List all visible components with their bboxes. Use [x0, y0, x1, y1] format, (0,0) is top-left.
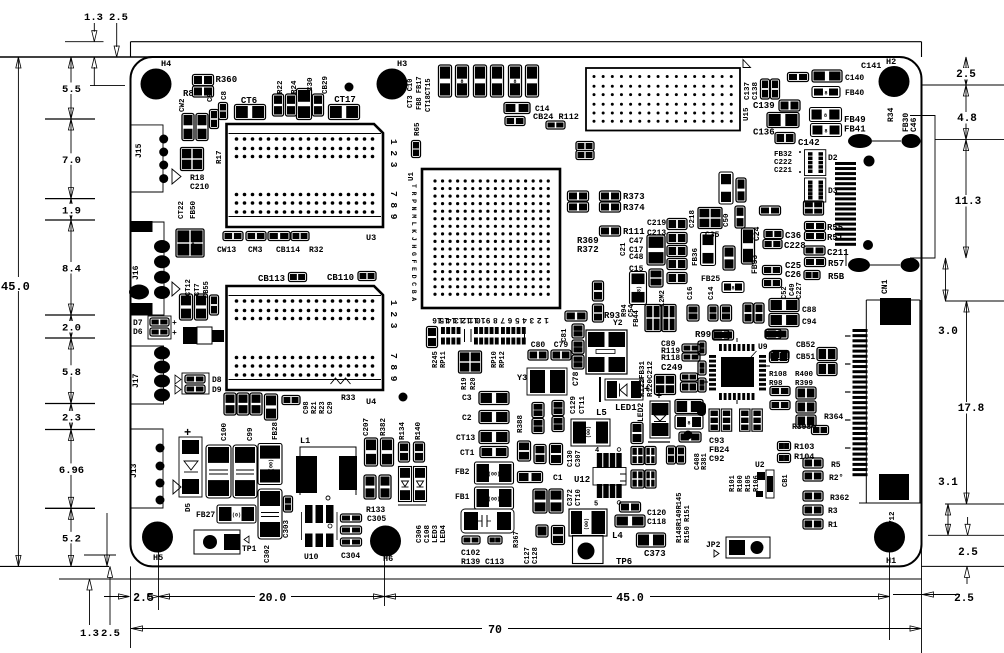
svg-text:C78: C78: [572, 371, 581, 386]
svg-text:D9: D9: [212, 386, 222, 395]
svg-text:20.0: 20.0: [259, 592, 287, 605]
svg-text:17.8: 17.8: [958, 403, 985, 415]
svg-text:R111: R111: [623, 227, 645, 237]
svg-text:6: 6: [507, 315, 512, 324]
svg-text:(00): (00): [269, 459, 275, 471]
svg-text:R24: R24: [291, 80, 299, 94]
svg-text:10: 10: [476, 315, 486, 324]
svg-text:U3: U3: [366, 233, 376, 243]
svg-text:C129: C129: [570, 395, 578, 414]
svg-text:J17: J17: [132, 373, 141, 388]
svg-text:5: 5: [594, 501, 598, 509]
svg-text:RP10: RP10: [491, 351, 499, 368]
svg-text:CB51: CB51: [796, 353, 815, 362]
svg-text:R122FB31: R122FB31: [639, 360, 647, 397]
svg-text:R57: R57: [828, 259, 844, 269]
svg-text:+: +: [184, 426, 191, 440]
svg-text:C306: C306: [416, 524, 424, 543]
svg-text:R18: R18: [190, 174, 205, 183]
svg-text:C88: C88: [802, 306, 817, 315]
svg-text:8: 8: [824, 113, 827, 119]
svg-text:R21: R21: [311, 401, 319, 414]
svg-text:CT11: CT11: [579, 395, 587, 414]
svg-text:5.8: 5.8: [62, 367, 81, 379]
svg-text:R103: R103: [794, 442, 814, 452]
svg-text:(00): (00): [586, 426, 592, 438]
svg-text:C102: C102: [461, 549, 480, 558]
svg-text:C302: C302: [264, 544, 272, 563]
svg-text:3: 3: [725, 192, 731, 195]
svg-text:A: A: [410, 297, 417, 301]
svg-text:C2: C2: [462, 414, 472, 423]
svg-text:5.2: 5.2: [62, 533, 81, 545]
svg-text:C227: C227: [796, 282, 804, 299]
svg-text:C98: C98: [303, 401, 311, 414]
svg-text:D7: D7: [133, 319, 143, 328]
svg-text:C136: C136: [753, 128, 775, 138]
svg-text:R20: R20: [470, 377, 478, 390]
svg-text:C140: C140: [845, 74, 864, 83]
svg-text:R100: R100: [737, 475, 745, 492]
svg-text:FB28: FB28: [272, 421, 280, 440]
svg-text:8: 8: [731, 286, 734, 292]
svg-text:P: P: [410, 199, 417, 203]
svg-text:R150 R151: R150 R151: [684, 505, 692, 543]
svg-text:FB33: FB33: [751, 255, 760, 274]
svg-text:J15: J15: [135, 143, 144, 158]
svg-text:R8: R8: [183, 89, 194, 99]
svg-text:H2: H2: [886, 57, 896, 67]
svg-text:R139 C113: R139 C113: [461, 558, 504, 567]
svg-text:L4: L4: [612, 531, 623, 541]
svg-text:J: J: [410, 237, 417, 241]
svg-text:9: 9: [486, 315, 491, 324]
svg-text:1 2 3: 1 2 3: [388, 300, 399, 329]
svg-text:C80: C80: [531, 341, 546, 350]
svg-text:70: 70: [488, 624, 502, 637]
svg-text:C137: C137: [744, 82, 752, 100]
svg-text:C3: C3: [462, 394, 472, 403]
svg-text:U9: U9: [758, 343, 768, 352]
svg-text:H1: H1: [886, 556, 896, 566]
svg-text:R65: R65: [414, 122, 422, 136]
svg-text:R19: R19: [461, 377, 469, 390]
svg-text:C36: C36: [785, 231, 801, 241]
svg-text:C100: C100: [221, 422, 229, 441]
svg-text:2.3: 2.3: [62, 413, 81, 425]
svg-text:U10: U10: [304, 553, 319, 562]
svg-text:C228: C228: [784, 241, 806, 251]
svg-text:G: G: [410, 252, 417, 256]
svg-text:CT1: CT1: [460, 449, 475, 458]
svg-text:2.5: 2.5: [101, 628, 120, 640]
svg-text:R388: R388: [517, 414, 525, 433]
svg-text:H6: H6: [383, 554, 393, 564]
svg-text:C305: C305: [367, 515, 386, 524]
svg-text:T: T: [410, 184, 417, 188]
svg-text:1 2 3: 1 2 3: [388, 139, 399, 168]
svg-text:L5: L5: [596, 408, 607, 418]
svg-text:6.96: 6.96: [59, 465, 84, 477]
svg-text:U2: U2: [755, 461, 765, 470]
svg-text:5: 5: [515, 315, 520, 324]
svg-text:R17: R17: [216, 150, 224, 164]
svg-text:FB2: FB2: [455, 468, 470, 477]
svg-text:R5: R5: [831, 461, 841, 470]
svg-text:R120C212: R120C212: [647, 360, 655, 397]
svg-text:H3: H3: [397, 59, 407, 69]
svg-text:R98: R98: [769, 380, 783, 388]
svg-text:C52: C52: [781, 286, 789, 299]
svg-text:C15: C15: [629, 265, 644, 274]
svg-text:R367: R367: [513, 531, 521, 548]
svg-text:J13: J13: [130, 463, 139, 478]
svg-text:C221: C221: [774, 167, 793, 175]
svg-text:C372: C372: [567, 489, 575, 506]
svg-text:2.5: 2.5: [958, 547, 978, 559]
svg-text:R1: R1: [828, 521, 838, 530]
svg-text:R23: R23: [319, 401, 327, 414]
svg-text:C304: C304: [341, 552, 360, 561]
svg-text:C21: C21: [620, 242, 628, 256]
svg-text:R360: R360: [216, 75, 238, 85]
svg-text:FB44: FB44: [633, 310, 641, 327]
svg-text:R99: R99: [695, 330, 711, 340]
svg-text:R101: R101: [729, 475, 737, 492]
svg-text:R245: R245: [432, 351, 440, 368]
svg-text:R106: R106: [753, 475, 761, 492]
svg-text:4: 4: [522, 315, 527, 324]
svg-text:C222: C222: [774, 159, 793, 167]
svg-text:2.5: 2.5: [954, 593, 974, 605]
svg-text:TP6: TP6: [616, 557, 632, 567]
svg-text:C92: C92: [709, 454, 724, 464]
svg-text:R93: R93: [604, 311, 620, 321]
svg-text:45.0: 45.0: [616, 592, 644, 605]
svg-text:8: 8: [824, 129, 827, 135]
svg-text:C29: C29: [327, 401, 335, 414]
svg-text:U15: U15: [743, 107, 751, 121]
svg-text:J16: J16: [132, 265, 141, 280]
svg-text:8: 8: [824, 91, 827, 97]
svg-text:CN1: CN1: [881, 279, 890, 294]
svg-text:+: +: [656, 392, 662, 403]
svg-text:C210: C210: [190, 183, 209, 192]
svg-text:C30: C30: [307, 77, 315, 91]
svg-text:7: 7: [500, 315, 505, 324]
svg-text:H: H: [410, 244, 417, 248]
svg-text:2.0: 2.0: [62, 323, 81, 335]
svg-text:R51: R51: [827, 233, 844, 243]
svg-text:C: C: [410, 282, 417, 286]
svg-text:7.0: 7.0: [62, 155, 81, 167]
svg-text:D5: D5: [185, 502, 193, 512]
svg-text:B: B: [410, 290, 417, 294]
svg-text:C219: C219: [647, 219, 666, 228]
svg-text:Y3: Y3: [517, 373, 527, 383]
svg-text:JP2: JP2: [706, 541, 721, 550]
svg-text:3: 3: [707, 253, 713, 256]
svg-text:FB41: FB41: [844, 125, 866, 135]
svg-text:CB29: CB29: [322, 75, 330, 94]
svg-text:LED3: LED3: [432, 524, 440, 543]
svg-text:+: +: [172, 319, 177, 328]
svg-text:7 8 9: 7 8 9: [388, 353, 399, 382]
svg-text:2.5: 2.5: [109, 12, 128, 24]
svg-text:7 8 9: 7 8 9: [388, 191, 399, 220]
svg-text:C46: C46: [910, 117, 919, 132]
svg-text:C26: C26: [785, 270, 801, 280]
svg-text:C218: C218: [689, 209, 697, 228]
svg-text:3.1: 3.1: [938, 477, 958, 489]
svg-text:CT22: CT22: [178, 200, 186, 219]
svg-text:R108: R108: [769, 371, 788, 379]
svg-text:C139: C139: [753, 101, 775, 111]
svg-text:C141: C141: [861, 61, 881, 71]
svg-text:N: N: [410, 207, 417, 211]
svg-text:R148R149R145: R148R149R145: [676, 493, 684, 543]
svg-text:R399: R399: [795, 380, 814, 388]
svg-text:FB25: FB25: [701, 275, 720, 284]
svg-text:C373: C373: [644, 549, 666, 559]
svg-text:R33: R33: [341, 394, 356, 403]
svg-text:R134: R134: [399, 421, 407, 440]
svg-text:LED4: LED4: [440, 524, 448, 543]
svg-text:D: D: [410, 275, 417, 279]
svg-text:CT13: CT13: [456, 434, 475, 443]
svg-text:3.0: 3.0: [938, 326, 958, 338]
svg-text:E: E: [410, 267, 417, 271]
svg-text:CT18CT15: CT18CT15: [425, 78, 433, 112]
svg-text:R140: R140: [415, 421, 423, 440]
svg-text:8: 8: [687, 421, 690, 427]
svg-text:C207: C207: [363, 418, 371, 436]
svg-text:4: 4: [595, 447, 599, 455]
svg-text:C9: C9: [207, 92, 215, 102]
svg-text:1.3: 1.3: [80, 628, 99, 640]
svg-text:R: R: [410, 192, 417, 196]
svg-text:R382: R382: [380, 417, 388, 436]
svg-text:8: 8: [493, 315, 498, 324]
svg-text:C138: C138: [752, 81, 760, 100]
svg-text:C108: C108: [424, 524, 432, 543]
svg-text:3: 3: [529, 315, 534, 324]
svg-text:R55: R55: [827, 223, 843, 233]
svg-text:CM3: CM3: [248, 246, 263, 255]
svg-text:C118: C118: [647, 518, 666, 527]
svg-text:FB27: FB27: [196, 511, 215, 520]
svg-text:C50: C50: [723, 213, 731, 227]
svg-text:CT6: CT6: [241, 96, 257, 106]
svg-text:C35: C35: [705, 231, 720, 240]
svg-text:8: 8: [191, 242, 194, 248]
svg-text:C94: C94: [802, 318, 817, 327]
svg-text:U4: U4: [366, 397, 376, 407]
svg-text:11.3: 11.3: [955, 196, 982, 208]
svg-text:C120: C120: [647, 509, 666, 518]
svg-text:R2°: R2°: [829, 474, 843, 483]
svg-text:R5B: R5B: [828, 272, 845, 282]
svg-text:C8: C8: [221, 90, 229, 100]
svg-text:C249: C249: [661, 363, 683, 373]
svg-text:1: 1: [544, 315, 549, 324]
svg-text:C142: C142: [798, 138, 820, 148]
svg-text:V12: V12: [889, 511, 897, 525]
svg-text:CB52: CB52: [796, 341, 815, 350]
svg-text:CW13: CW13: [217, 246, 236, 255]
svg-text:FB49: FB49: [844, 115, 866, 125]
svg-text:R105: R105: [745, 475, 753, 492]
svg-text:R3: R3: [828, 507, 838, 516]
svg-text:F: F: [410, 260, 417, 264]
svg-text:D8: D8: [212, 376, 222, 385]
svg-text:R133: R133: [366, 506, 385, 515]
svg-text:C1: C1: [553, 474, 563, 483]
svg-text:1.3: 1.3: [84, 12, 103, 24]
svg-text:8: 8: [513, 79, 516, 85]
svg-text:C14: C14: [708, 286, 716, 300]
svg-text:CB1: CB1: [782, 474, 790, 487]
svg-text:C47: C47: [629, 237, 644, 246]
svg-text:45.0: 45.0: [1, 280, 30, 294]
svg-text:K: K: [410, 229, 417, 233]
svg-text:D2: D2: [828, 154, 838, 163]
svg-text:R22: R22: [277, 80, 285, 94]
svg-text:C99: C99: [247, 427, 255, 441]
svg-text:C303: C303: [283, 519, 291, 538]
svg-text:2.5: 2.5: [956, 69, 976, 81]
svg-text:(00): (00): [488, 472, 500, 478]
svg-text:C127: C127: [524, 547, 532, 564]
svg-text:R398: R398: [792, 423, 811, 432]
svg-text:CB113: CB113: [258, 274, 285, 284]
svg-text:H5: H5: [153, 553, 163, 563]
svg-text:FB32: FB32: [774, 151, 793, 159]
svg-text:FB1: FB1: [455, 493, 470, 502]
svg-text:C128: C128: [532, 547, 540, 564]
svg-text:CT17: CT17: [334, 95, 356, 105]
svg-text:(00): (00): [584, 518, 590, 530]
svg-text:L: L: [410, 222, 417, 226]
svg-text:M: M: [410, 214, 417, 218]
svg-text:R373: R373: [623, 192, 645, 202]
svg-text:R400: R400: [795, 371, 814, 379]
svg-text:R118: R118: [661, 354, 680, 363]
svg-text:+: +: [172, 329, 177, 338]
svg-text:CB114: CB114: [276, 246, 300, 255]
svg-text:(00): (00): [488, 497, 500, 503]
svg-text:R364: R364: [824, 413, 843, 422]
svg-text:LED1: LED1: [615, 403, 637, 413]
svg-text:RP12: RP12: [499, 351, 507, 368]
svg-text:4.8: 4.8: [957, 113, 977, 125]
svg-text:L1: L1: [300, 436, 310, 446]
svg-text:R372: R372: [577, 245, 599, 255]
svg-text:C16: C16: [687, 286, 695, 300]
svg-text:CW2: CW2: [179, 98, 187, 112]
svg-text:FB50: FB50: [190, 200, 198, 219]
svg-text:C48: C48: [629, 253, 644, 262]
svg-text:2: 2: [537, 315, 542, 324]
svg-text:1.9: 1.9: [62, 205, 81, 217]
svg-text:FB8 FB17: FB8 FB17: [416, 76, 424, 110]
svg-text:R32: R32: [309, 246, 324, 255]
svg-text:8: 8: [460, 79, 463, 85]
svg-text:CB110: CB110: [327, 273, 354, 283]
svg-text:FB40: FB40: [845, 89, 864, 98]
svg-text:C130: C130: [567, 450, 575, 467]
svg-text:RP11: RP11: [440, 351, 448, 368]
svg-text:D6: D6: [133, 328, 143, 337]
svg-text:R34: R34: [887, 107, 896, 122]
svg-text:R362: R362: [830, 494, 849, 503]
svg-text:U1: U1: [408, 171, 416, 181]
svg-text:H4: H4: [161, 59, 171, 69]
svg-text:LED2: LED2: [637, 403, 646, 422]
svg-text:TP1: TP1: [242, 545, 257, 554]
svg-text:(0): (0): [232, 513, 241, 519]
svg-text:(8): (8): [637, 286, 643, 295]
svg-text:CT3 C10: CT3 C10: [407, 79, 415, 108]
svg-text:C81: C81: [561, 328, 569, 342]
svg-text:FB36: FB36: [692, 247, 700, 266]
svg-text:CT10: CT10: [575, 489, 583, 506]
svg-text:5.5: 5.5: [62, 84, 81, 96]
svg-text:R374: R374: [623, 203, 645, 213]
svg-text:8.4: 8.4: [62, 264, 81, 276]
svg-text:C307: C307: [575, 450, 583, 467]
svg-text:U12: U12: [574, 475, 590, 485]
svg-text:R381: R381: [701, 453, 709, 470]
